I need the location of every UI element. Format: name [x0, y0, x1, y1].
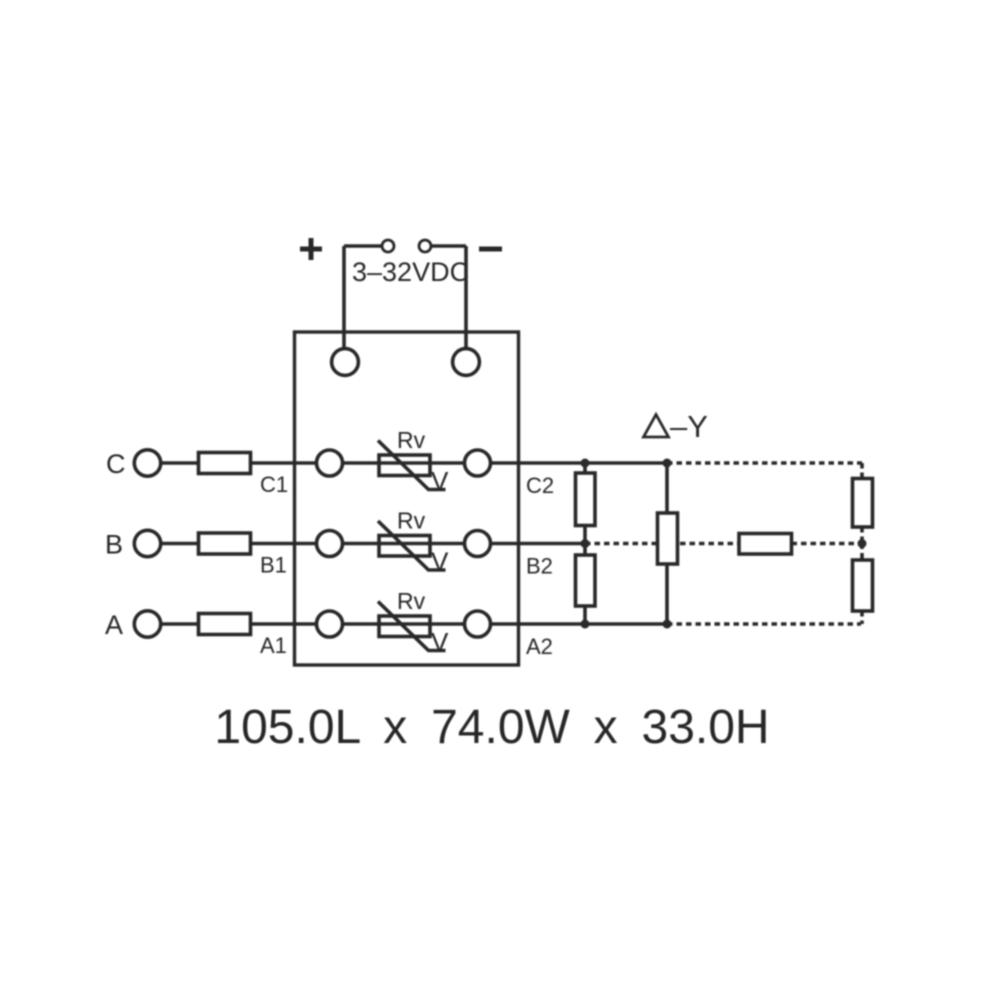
junction node A-delta-mid: [663, 620, 672, 629]
wire from + lead to left pin: [344, 244, 382, 248]
pin circle left DC terminal: [382, 240, 394, 252]
svg-text:–Y: –Y: [670, 409, 708, 444]
svg-text:B2: B2: [526, 554, 553, 579]
fuse FB on line B: [199, 533, 251, 554]
SSR module body outline: [295, 332, 519, 665]
junction node C-delta-mid: [663, 459, 672, 468]
svg-text:C2: C2: [526, 473, 554, 498]
wire fuse to SSR terminal A1: [251, 622, 317, 626]
svg-text:B: B: [105, 530, 123, 560]
varistor RV-A strike: [378, 602, 446, 651]
load resistor Y phase A: [853, 560, 873, 611]
load resistor Y phase C: [853, 479, 873, 528]
junction node Y-star-point: [858, 539, 867, 548]
svg-text:B1: B1: [260, 553, 287, 578]
svg-text:V: V: [431, 627, 449, 657]
SSR terminal C1: [317, 450, 343, 476]
SSR terminal B2: [465, 531, 491, 557]
SSR terminal B1: [317, 531, 343, 557]
wire fuse to SSR terminal B1: [251, 542, 317, 546]
wire right vertical into SSR input 4: [464, 246, 468, 349]
svg-text:Rv: Rv: [397, 588, 426, 614]
load resistor delta C-A: [658, 513, 678, 564]
svg-text:3–32VDC: 3–32VDC: [352, 257, 469, 287]
svg-text:Rv: Rv: [397, 427, 426, 453]
wire B1 internal through varistor to B2: [343, 542, 465, 546]
SSR terminal A2: [465, 611, 491, 637]
wire dashed Y right vertical mid-top: [860, 527, 864, 544]
svg-text:C: C: [106, 449, 126, 479]
load resistor delta C-B: [576, 473, 596, 526]
wire dashed row B segment 1: [585, 542, 739, 546]
SSR terminal C2: [465, 450, 491, 476]
wire fuse to SSR terminal C1: [251, 461, 317, 465]
pin circle right DC terminal: [419, 240, 431, 252]
SSR terminal A1: [317, 611, 343, 637]
line A source terminal: [134, 611, 160, 637]
junction node A-delta-left: [581, 620, 590, 629]
svg-text:C1: C1: [260, 472, 288, 497]
wire from right pin to - lead: [431, 244, 466, 248]
wire A terminal to fuse: [161, 622, 199, 626]
varistor RV-A body: [379, 616, 430, 637]
varistor RV-C body: [379, 455, 430, 476]
junction node B-delta-left: [581, 539, 590, 548]
fuse FA on line A: [199, 614, 251, 635]
wire B terminal to fuse: [161, 542, 199, 546]
line B source terminal: [134, 530, 160, 556]
svg-text:105.0L x 74.0W x 33.0H: 105.0L x 74.0W x 33.0H: [214, 701, 769, 754]
svg-text:Rv: Rv: [397, 508, 426, 534]
varistor RV-B body: [379, 536, 430, 557]
svg-text:V: V: [431, 466, 449, 496]
svg-text:A: A: [105, 610, 123, 640]
wire delta middle branch vertical: [665, 463, 669, 624]
wire B2 to delta network: [491, 542, 586, 546]
varistor RV-B strike: [378, 521, 446, 570]
wire A1 internal through varistor to A2: [343, 622, 465, 626]
svg-text:A2: A2: [526, 634, 553, 659]
wire dashed Y right vertical mid-bottom: [860, 544, 864, 561]
load resistor Y phase B horizontal: [739, 534, 792, 555]
terminal - (DC input negative label): [479, 247, 502, 252]
line C source terminal: [134, 450, 160, 476]
wire dashed Y right vertical top: [860, 463, 864, 479]
svg-text:A1: A1: [260, 633, 287, 658]
fuse FC on line C: [199, 453, 251, 474]
varistor RV-C strike: [378, 441, 446, 490]
wire dashed Y right vertical bottom: [860, 611, 864, 624]
wire A2 to delta network: [491, 622, 668, 626]
delta symbol of label: [644, 415, 669, 438]
wire C terminal to fuse: [161, 461, 199, 465]
terminal + (DC input positive label): [300, 238, 322, 260]
wire dashed row A to Y network: [667, 622, 861, 626]
SSR input terminal 3: [332, 349, 359, 376]
wire dashed row B segment 2: [792, 542, 863, 546]
wire C1 internal through varistor to C2: [343, 461, 465, 465]
wire C2 to delta network: [491, 461, 668, 465]
wire left vertical into SSR input 3: [342, 246, 346, 349]
junction node C-delta-left: [581, 459, 590, 468]
load resistor delta B-A: [576, 555, 596, 606]
wire dashed row C to Y network: [667, 461, 862, 465]
SSR input terminal 4: [453, 349, 480, 376]
svg-text:V: V: [431, 547, 449, 577]
wire delta left branch vertical: [583, 463, 587, 624]
